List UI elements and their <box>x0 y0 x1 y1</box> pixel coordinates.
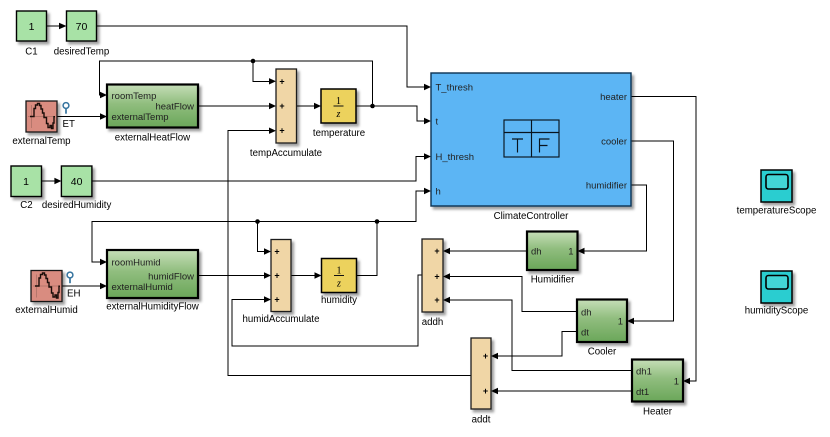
sum addh <box>422 239 444 328</box>
subsystem Heater <box>632 360 683 418</box>
svg-text:humidAccumulate: humidAccumulate <box>243 314 320 325</box>
svg-text:heatFlow: heatFlow <box>155 102 194 113</box>
svg-text:dh: dh <box>581 307 592 318</box>
svg-text:humidityScope: humidityScope <box>745 306 809 317</box>
wire humidFlow to humidAccumulate input 2 <box>198 272 271 278</box>
svg-text:C1: C1 <box>25 47 37 58</box>
svg-text:humidity: humidity <box>321 295 357 306</box>
svg-text:1: 1 <box>568 247 573 258</box>
svg-text:z: z <box>336 278 341 289</box>
svg-text:t: t <box>436 117 439 128</box>
svg-text:+: + <box>279 126 284 136</box>
svg-text:T_thresh: T_thresh <box>436 83 474 94</box>
sum tempAccumulate <box>250 69 322 159</box>
subsystem Cooler <box>577 300 627 358</box>
wire desiredTemp to ClimateController T_thresh <box>97 26 431 90</box>
scope temperatureScope <box>737 170 817 217</box>
svg-text:+: + <box>434 272 439 282</box>
svg-text:+: + <box>274 247 279 257</box>
svg-text:externalHumidityFlow: externalHumidityFlow <box>106 302 200 313</box>
svg-text:EH: EH <box>67 289 80 300</box>
svg-text:C2: C2 <box>20 200 32 211</box>
junction temperature feedback upper <box>251 59 256 64</box>
wire temperature feedback to roomTemp <box>100 61 373 106</box>
svg-text:H_thresh: H_thresh <box>436 152 475 163</box>
svg-text:h: h <box>436 187 441 198</box>
svg-text:+: + <box>279 101 284 111</box>
wire addh output to humidAccumulate input 3 <box>232 275 422 346</box>
sum addt <box>471 338 491 426</box>
wire ClimateController humidifier to Humidifier input 1 <box>578 185 647 254</box>
junction temperature output <box>370 104 375 109</box>
wire desiredHumidity to ClimateController H_thresh <box>92 153 431 181</box>
svg-text:+: + <box>483 386 488 396</box>
svg-text:desiredHumidity: desiredHumidity <box>42 200 112 211</box>
svg-text:1: 1 <box>23 176 29 188</box>
logging badge EH <box>67 272 80 299</box>
constant desiredTemp value 70 <box>54 11 109 58</box>
svg-text:1: 1 <box>336 96 341 107</box>
constant C1 <box>17 11 47 58</box>
scope humidityScope <box>745 271 809 317</box>
unit delay temperature <box>313 89 365 139</box>
svg-text:dt: dt <box>581 328 589 339</box>
svg-text:heater: heater <box>600 92 627 103</box>
svg-text:humidFlow: humidFlow <box>148 272 194 283</box>
svg-text:dt1: dt1 <box>636 387 649 398</box>
svg-text:temperature: temperature <box>313 128 365 139</box>
wire heatFlow to tempAccumulate input 2 <box>198 103 276 109</box>
wire tempAccumulate to temperature <box>297 103 322 109</box>
wire Heater dt1 to addt input 2 <box>491 388 632 394</box>
sum humidAccumulate <box>243 240 320 326</box>
svg-text:Heater: Heater <box>643 407 673 418</box>
svg-text:addt: addt <box>472 415 491 426</box>
svg-text:dh: dh <box>531 247 542 258</box>
svg-text:ET: ET <box>63 119 75 130</box>
wire temperature feedback branch to tempAccumulate input 1 <box>253 61 276 85</box>
svg-text:40: 40 <box>71 176 83 188</box>
wire externalHumid to externalHumidityFlow externalHumid <box>62 283 107 289</box>
wire Heater dh1 to addh input 3 <box>443 297 632 371</box>
signal source externalHumid <box>15 271 77 317</box>
wire addt output to tempAccumulate input 3 <box>228 128 471 376</box>
subsystem externalHeatFlow <box>107 85 198 144</box>
svg-text:Humidifier: Humidifier <box>531 275 575 286</box>
svg-text:1: 1 <box>618 317 623 328</box>
constant desiredHumidity value 40 <box>42 166 112 211</box>
svg-text:externalHumid: externalHumid <box>112 282 173 293</box>
subsystem Humidifier <box>527 232 578 286</box>
svg-text:1: 1 <box>674 376 679 387</box>
wire Humidifier dh to addh input 1 <box>443 248 527 254</box>
svg-text:externalHumid: externalHumid <box>15 305 77 316</box>
wire ClimateController cooler to Cooler input 1 <box>627 141 674 324</box>
constant C2 <box>11 166 42 211</box>
svg-text:externalHeatFlow: externalHeatFlow <box>115 133 191 144</box>
wire Cooler dh to addh input 2 <box>443 273 577 311</box>
svg-text:humidifier: humidifier <box>586 181 627 192</box>
svg-text:1: 1 <box>337 265 342 276</box>
svg-text:roomTemp: roomTemp <box>112 91 157 102</box>
subsystem externalHumidityFlow <box>106 250 200 313</box>
chart ClimateController <box>431 73 631 222</box>
svg-text:+: + <box>434 246 439 256</box>
wire externalTemp to externalHeatFlow externalTemp <box>57 113 107 119</box>
svg-text:roomHumid: roomHumid <box>112 258 161 269</box>
wire ClimateController heater to Heater input 1 <box>631 97 696 385</box>
wire Cooler dt to addt input 1 <box>491 332 577 360</box>
svg-text:z: z <box>336 109 341 120</box>
svg-text:+: + <box>483 351 488 361</box>
svg-text:dh1: dh1 <box>636 366 652 377</box>
wire humidity feedback branch to humidAccumulate input 1 <box>258 222 272 255</box>
svg-text:70: 70 <box>76 21 88 33</box>
svg-text:addh: addh <box>422 317 444 328</box>
svg-text:+: + <box>279 76 284 86</box>
svg-text:+: + <box>274 295 279 305</box>
svg-text:+: + <box>434 295 439 305</box>
svg-text:desiredTemp: desiredTemp <box>54 47 109 58</box>
wire humidAccumulate to humidity <box>291 272 322 278</box>
wire C1 to desiredTemp <box>47 23 67 29</box>
wire C2 to desiredHumidity <box>42 178 62 184</box>
unit delay humidity <box>321 259 357 307</box>
wire temperature to ClimateController t <box>356 106 431 124</box>
svg-text:ClimateController: ClimateController <box>494 211 570 222</box>
svg-text:1: 1 <box>29 21 35 33</box>
svg-text:externalTemp: externalTemp <box>112 112 169 123</box>
svg-text:Cooler: Cooler <box>588 347 617 358</box>
junction humidity feedback left <box>255 219 260 224</box>
svg-text:temperatureScope: temperatureScope <box>737 206 817 217</box>
svg-text:cooler: cooler <box>601 137 627 148</box>
wire humidity feedback to ClimateController h <box>377 188 431 222</box>
logging badge ET <box>63 103 75 130</box>
signal source externalTemp <box>12 101 70 147</box>
wire humidity feedback to roomHumid <box>92 222 377 276</box>
junction humidity feedback right <box>375 219 380 224</box>
svg-text:tempAccumulate: tempAccumulate <box>250 148 322 159</box>
svg-text:+: + <box>274 271 279 281</box>
svg-text:externalTemp: externalTemp <box>12 136 70 147</box>
